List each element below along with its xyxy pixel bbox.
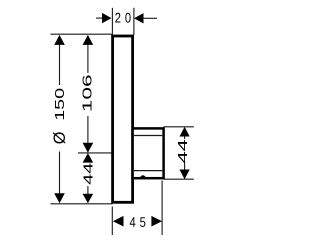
extension line valve centerline [78, 152, 113, 154]
extension line bottom (plate bottom face) [51, 203, 113, 205]
arrow right 45 right [151, 216, 162, 227]
dimension line 44 right upper segment [184, 137, 186, 140]
arrow right 20 left [102, 13, 112, 23]
svg-text:20: 20 [115, 10, 135, 25]
bump on housing bottom edge [140, 175, 146, 178]
arrow down D150 bottom [54, 193, 65, 203]
extension line top (plate top face) [51, 33, 113, 35]
dimension tail right of 20 [143, 17, 157, 19]
faceplate side view [113, 36, 133, 202]
housing inner flange line top [134, 135, 162, 137]
dimension line 106 upper segment [87, 45, 89, 74]
label 20 [115, 10, 135, 25]
housing inner flange line bottom [134, 170, 162, 172]
arrow down 44 right bottom [180, 170, 190, 180]
valve housing box [133, 128, 164, 178]
arrow up D150 top [54, 35, 65, 45]
label 45 [129, 215, 149, 230]
dimension line 106 lower segment [87, 116, 89, 143]
extension line 45 left [111, 207, 113, 236]
dimension line D150 lower segment [59, 152, 61, 194]
dimension line 44 right lower segment [184, 162, 186, 169]
arrow left 20 right [134, 13, 144, 23]
extension line 44 right top [164, 126, 194, 128]
svg-text:Ø: Ø [50, 132, 69, 145]
svg-text:44: 44 [81, 163, 96, 185]
arrow down 106 bottom [83, 143, 94, 153]
extension line 44 right bottom [164, 178, 194, 180]
svg-text:150: 150 [52, 88, 67, 121]
svg-text:106: 106 [80, 74, 95, 112]
arrow up 44 left top [83, 153, 94, 163]
arrow left 45 left [113, 216, 124, 227]
extension line 20 right [133, 8, 135, 35]
arrow up 106 top [83, 35, 94, 45]
extension line 20 left [111, 8, 113, 35]
dimension tail left of 20 [96, 17, 103, 19]
arrow down 44 left bottom [83, 194, 94, 204]
svg-text:45: 45 [129, 215, 149, 230]
dimension line D150 upper segment [59, 45, 61, 86]
extension line 45 right [161, 181, 163, 236]
svg-text:44: 44 [175, 139, 190, 163]
dimension line 44 left lower segment [87, 186, 89, 194]
arrow up 44 right top [180, 127, 190, 137]
